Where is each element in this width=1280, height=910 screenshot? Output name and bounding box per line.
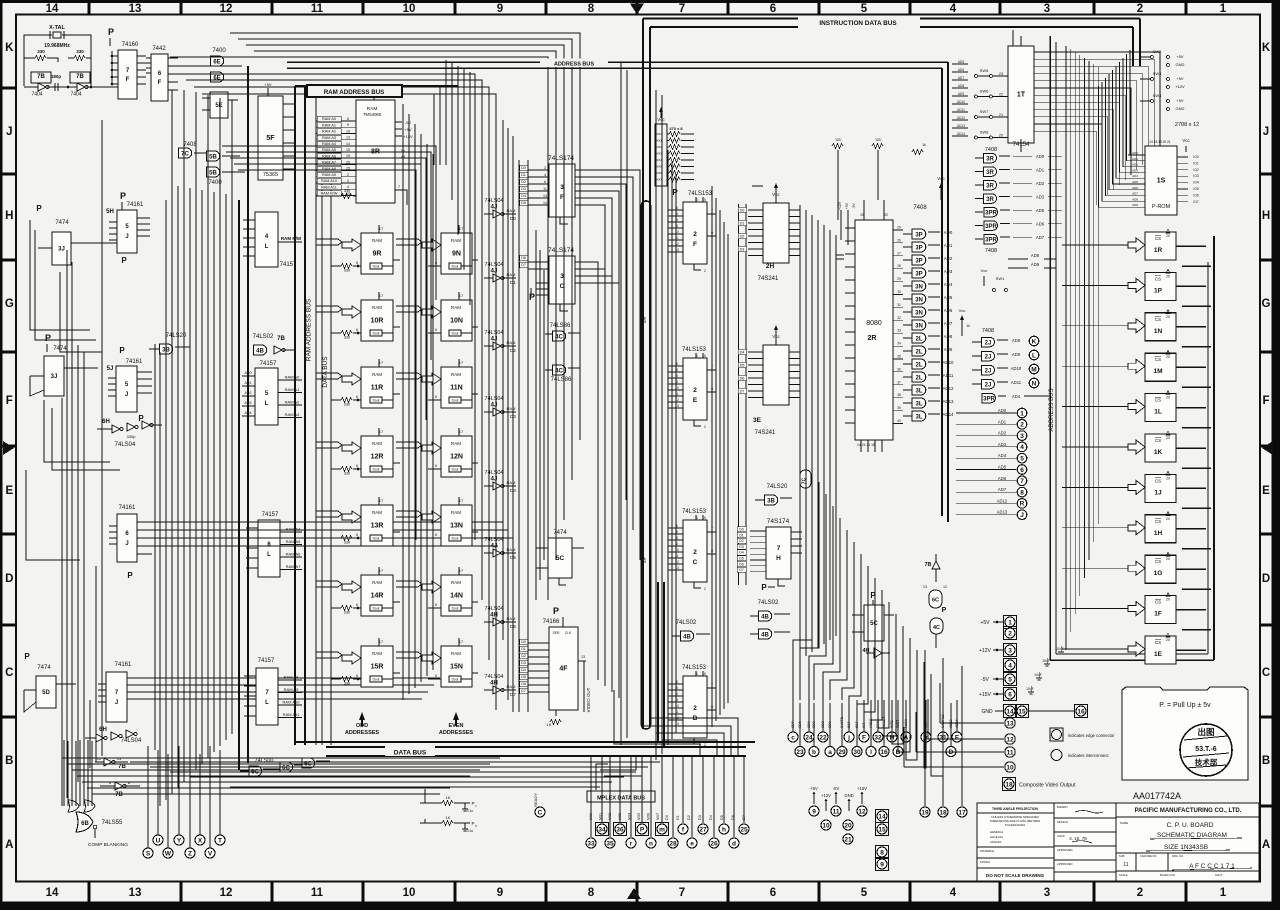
svg-text:D6: D6 bbox=[521, 256, 526, 260]
svg-text:18: 18 bbox=[1005, 781, 1013, 788]
svg-text:3P: 3P bbox=[915, 258, 922, 264]
svg-text:22: 22 bbox=[819, 734, 827, 741]
svg-text:AD7: AD7 bbox=[1036, 235, 1045, 240]
svg-text:4: 4 bbox=[676, 692, 678, 696]
svg-text:AD7: AD7 bbox=[1132, 192, 1138, 196]
mux 74LS153 2C bbox=[668, 509, 716, 591]
gate 6C c bbox=[302, 758, 315, 768]
svg-text:74LS04: 74LS04 bbox=[115, 442, 136, 448]
gate 3R 0 bbox=[984, 153, 997, 163]
connector H bbox=[887, 732, 897, 742]
svg-text:EVEN: EVEN bbox=[449, 723, 464, 729]
svg-text:15: 15 bbox=[346, 148, 350, 152]
svg-text:+5V: +5V bbox=[980, 620, 990, 626]
connector 21 bbox=[843, 834, 853, 844]
svg-text:6C: 6C bbox=[932, 598, 939, 604]
svg-text:16: 16 bbox=[880, 749, 888, 756]
svg-text:U: U bbox=[156, 837, 161, 844]
svg-text:AD13: AD13 bbox=[997, 510, 1008, 515]
svg-text:P: P bbox=[121, 256, 127, 265]
svg-text:RAM A1: RAM A1 bbox=[285, 387, 300, 392]
connector 17 bbox=[957, 807, 967, 817]
resistor pack 470x8 bbox=[655, 107, 694, 186]
svg-text:27: 27 bbox=[897, 251, 901, 255]
wires 5F right pins bbox=[283, 104, 295, 169]
svg-text:AD5: AD5 bbox=[998, 465, 1007, 470]
data channel bar 738 bbox=[739, 204, 747, 585]
svg-text:D6: D6 bbox=[731, 815, 735, 820]
svg-text:l: l bbox=[870, 749, 872, 756]
svg-text:D1: D1 bbox=[521, 173, 526, 177]
connector 29 bbox=[837, 747, 847, 757]
svg-text:AD4: AD4 bbox=[944, 282, 953, 287]
svg-text:RAM A6: RAM A6 bbox=[286, 552, 301, 557]
svg-text:AD1: AD1 bbox=[944, 243, 953, 248]
wire bundle top left nest bbox=[170, 33, 580, 710]
signal connector circles lower row bbox=[795, 703, 956, 757]
svg-text:3: 3 bbox=[676, 380, 678, 384]
svg-text:10: 10 bbox=[346, 129, 350, 133]
svg-text:2: 2 bbox=[347, 173, 349, 177]
inverters 6H row C bbox=[85, 727, 142, 744]
svg-text:Dout: Dout bbox=[373, 468, 380, 472]
svg-text:17: 17 bbox=[459, 226, 464, 231]
register 74S174 7H bbox=[737, 518, 802, 592]
svg-text:74LS20: 74LS20 bbox=[767, 484, 788, 490]
svg-text:13: 13 bbox=[543, 194, 547, 198]
svg-text:12: 12 bbox=[220, 887, 233, 899]
svg-text:330: 330 bbox=[344, 189, 350, 193]
connector N bbox=[1029, 378, 1039, 388]
memory chip 1F bbox=[1062, 593, 1211, 630]
svg-text:INSTRUCTION DATA BUS: INSTRUCTION DATA BUS bbox=[819, 20, 897, 27]
RAM chip 9N bbox=[422, 225, 472, 274]
svg-text:D5: D5 bbox=[739, 557, 744, 561]
wires RAM A0-A3 outputs bbox=[242, 371, 302, 418]
wires 7J pins bbox=[98, 678, 143, 702]
svg-text:SW1: SW1 bbox=[996, 276, 1005, 281]
svg-text:20: 20 bbox=[999, 134, 1003, 138]
svg-text:H: H bbox=[5, 210, 13, 222]
svg-text:D0: D0 bbox=[740, 209, 745, 213]
svg-text:6: 6 bbox=[356, 395, 358, 399]
svg-text:330: 330 bbox=[344, 682, 350, 686]
svg-text:AD8: AD8 bbox=[944, 334, 953, 339]
svg-text:6: 6 bbox=[770, 887, 776, 899]
svg-text:74LS02: 74LS02 bbox=[253, 334, 274, 340]
mux 74LS153 2B bbox=[668, 665, 716, 747]
svg-text:2: 2 bbox=[693, 231, 697, 238]
svg-text:74LS174: 74LS174 bbox=[548, 155, 574, 162]
gate 3P AD1 bbox=[912, 242, 926, 252]
svg-text:D: D bbox=[5, 573, 13, 585]
svg-text:RAM: RAM bbox=[372, 510, 382, 515]
svg-text:J: J bbox=[125, 234, 128, 240]
svg-text:33: 33 bbox=[897, 329, 901, 333]
svg-text:6B: 6B bbox=[81, 821, 89, 827]
legend interconnect bbox=[1051, 750, 1109, 761]
svg-text:RAM A11: RAM A11 bbox=[321, 185, 337, 189]
wire 11R Dout bbox=[370, 397, 382, 403]
gate 6E b bbox=[211, 72, 224, 82]
svg-text:330p: 330p bbox=[127, 434, 137, 439]
svg-text:21: 21 bbox=[999, 113, 1003, 117]
svg-text:14: 14 bbox=[46, 887, 59, 899]
handwritten note box bbox=[1122, 687, 1248, 780]
svg-text:C: C bbox=[5, 667, 13, 679]
svg-text:SW7: SW7 bbox=[980, 109, 989, 114]
svg-text:THIRD ANGLE PROJECTION: THIRD ANGLE PROJECTION bbox=[992, 807, 1039, 811]
svg-text:19: 19 bbox=[921, 809, 929, 816]
column tick marks bottom bbox=[89, 881, 1186, 902]
svg-text:AD14: AD14 bbox=[957, 132, 965, 136]
inverters 74LS04 6H row bbox=[97, 419, 162, 448]
svg-text:35: 35 bbox=[606, 840, 614, 847]
svg-text:AD10: AD10 bbox=[1011, 366, 1022, 371]
RAM chip 14N bbox=[422, 567, 472, 616]
svg-text:BLUED CAN: BLUED CAN bbox=[1160, 873, 1175, 877]
svg-text:D7: D7 bbox=[739, 568, 744, 572]
svg-text:24: 24 bbox=[805, 734, 813, 741]
svg-text:32: 32 bbox=[874, 734, 882, 741]
svg-text:IO3: IO3 bbox=[1193, 174, 1199, 178]
gate 3N AD6 bbox=[912, 307, 926, 317]
gate 3B right bbox=[765, 495, 778, 505]
svg-text:5: 5 bbox=[861, 887, 868, 899]
svg-text:7408: 7408 bbox=[982, 328, 994, 334]
svg-text:RAM A5: RAM A5 bbox=[286, 539, 301, 544]
svg-text:10: 10 bbox=[822, 822, 830, 829]
gate 3R 2 bbox=[984, 180, 997, 190]
svg-text:9: 9 bbox=[812, 808, 816, 815]
svg-text:11: 11 bbox=[833, 808, 840, 815]
svg-text:DATA BUS: DATA BUS bbox=[394, 750, 427, 757]
wire 10N Dout bbox=[449, 330, 461, 336]
wires 3F pins bbox=[528, 166, 588, 227]
svg-text:K: K bbox=[1032, 338, 1037, 345]
mux 74LS153 2E bbox=[668, 347, 716, 429]
address bus vertical lines bbox=[1066, 46, 1098, 650]
svg-text:1N: 1N bbox=[1154, 328, 1163, 335]
svg-text:7474: 7474 bbox=[37, 665, 51, 671]
svg-text:11: 11 bbox=[1007, 749, 1014, 756]
svg-text:17: 17 bbox=[459, 360, 464, 365]
svg-text:39: 39 bbox=[897, 406, 901, 410]
wire bundle bottom long horizontals bbox=[130, 762, 660, 787]
svg-text:D0: D0 bbox=[521, 640, 526, 644]
svg-text:E: E bbox=[955, 734, 960, 741]
wire data input 10R bbox=[341, 331, 352, 336]
svg-text:21: 21 bbox=[844, 836, 852, 843]
svg-text:RAM A0: RAM A0 bbox=[285, 375, 300, 380]
memory chip 1H bbox=[1062, 512, 1211, 549]
svg-text:CS: CS bbox=[1155, 519, 1161, 524]
svg-text:CLK: CLK bbox=[565, 631, 572, 635]
svg-text:Vcc: Vcc bbox=[959, 308, 966, 313]
buffer 74S241 2H bbox=[738, 183, 800, 282]
svg-text:ANGLES: ANGLES bbox=[990, 840, 1001, 844]
svg-text:SW2: SW2 bbox=[1153, 49, 1162, 54]
svg-text:F: F bbox=[126, 77, 130, 83]
wire 8R top bbox=[340, 91, 374, 93]
svg-text:74160: 74160 bbox=[122, 42, 139, 48]
svg-text:L: L bbox=[265, 700, 269, 706]
svg-text:P: P bbox=[640, 826, 645, 833]
svg-text:c: c bbox=[791, 734, 795, 741]
svg-text:RAM: RAM bbox=[372, 651, 382, 656]
wire 15R Dout bbox=[370, 676, 382, 682]
svg-text:3J: 3J bbox=[58, 247, 65, 253]
svg-text:AA017742A: AA017742A bbox=[1133, 791, 1181, 801]
svg-text:CS: CS bbox=[1155, 276, 1161, 281]
gate 2L AD8 bbox=[912, 333, 926, 343]
svg-text:3J: 3J bbox=[51, 374, 58, 380]
svg-text:13: 13 bbox=[923, 585, 927, 589]
svg-text:V: V bbox=[208, 850, 213, 857]
svg-text:2L: 2L bbox=[915, 362, 922, 368]
svg-text:D7: D7 bbox=[521, 689, 526, 693]
connector n bbox=[646, 838, 656, 848]
svg-text:5H: 5H bbox=[106, 209, 114, 215]
gate 3N AD7 bbox=[912, 320, 926, 330]
ready connector C bbox=[533, 793, 545, 817]
connector 10 bbox=[821, 820, 831, 830]
power labels bottom with circles bbox=[809, 786, 867, 844]
svg-text:AD9: AD9 bbox=[1132, 203, 1138, 207]
gate 3PR 0 bbox=[984, 207, 998, 217]
odd addresses label bbox=[345, 712, 380, 736]
svg-text:3N: 3N bbox=[915, 323, 923, 329]
connector 24 bbox=[804, 732, 814, 742]
svg-text:15R: 15R bbox=[371, 664, 384, 671]
data bus label overlay bbox=[385, 747, 435, 756]
svg-text:P: P bbox=[761, 583, 767, 592]
svg-text:330: 330 bbox=[76, 49, 84, 54]
gate 3R 1 bbox=[984, 167, 997, 177]
svg-text:AD3: AD3 bbox=[998, 442, 1007, 447]
svg-text:3R: 3R bbox=[986, 183, 994, 189]
connector c bbox=[788, 732, 798, 742]
inverter 7404 B bbox=[77, 83, 88, 91]
svg-text:P: P bbox=[127, 571, 133, 580]
wire nest right of 3F 3C bbox=[588, 170, 640, 698]
svg-text:H: H bbox=[1262, 210, 1270, 222]
svg-text:74161: 74161 bbox=[126, 359, 143, 365]
svg-text:6H: 6H bbox=[102, 419, 110, 425]
svg-text:74LS153: 74LS153 bbox=[682, 665, 707, 671]
svg-text:10: 10 bbox=[1006, 764, 1014, 771]
svg-text:1M: 1M bbox=[1153, 368, 1162, 375]
wedge feeders from RAM address bus channel bbox=[316, 239, 422, 658]
svg-text:9R: 9R bbox=[373, 251, 382, 258]
svg-text:3P: 3P bbox=[915, 245, 922, 251]
CPU 8080 2R bbox=[845, 200, 903, 452]
connector K bbox=[1029, 336, 1039, 346]
svg-text:4B: 4B bbox=[256, 348, 264, 354]
svg-text:C: C bbox=[693, 559, 698, 566]
svg-text:2: 2 bbox=[704, 587, 706, 591]
svg-text:Dout: Dout bbox=[373, 607, 380, 611]
svg-text:J: J bbox=[6, 126, 12, 138]
svg-text:6H: 6H bbox=[99, 727, 107, 733]
wire bundle left verticals bbox=[62, 90, 232, 806]
boxed connectors 14 15 8 9 bottom bbox=[875, 809, 888, 870]
svg-text:AD13: AD13 bbox=[949, 719, 953, 728]
svg-text:AD4: AD4 bbox=[998, 453, 1007, 458]
svg-text:Composite Video Output: Composite Video Output bbox=[1019, 783, 1076, 789]
svg-text:74161: 74161 bbox=[119, 505, 136, 511]
svg-text:25: 25 bbox=[897, 226, 901, 230]
wire data input 13R bbox=[341, 536, 352, 541]
svg-text:C: C bbox=[1262, 667, 1270, 679]
svg-text:4: 4 bbox=[676, 374, 678, 378]
connector 14 15 GND bbox=[981, 704, 1087, 717]
RAM chip 12N bbox=[422, 428, 472, 477]
svg-text:74161: 74161 bbox=[127, 202, 144, 208]
svg-text:GND: GND bbox=[1176, 106, 1185, 111]
svg-text:5D: 5D bbox=[42, 690, 50, 696]
gate 6C right bbox=[923, 585, 947, 608]
svg-text:L: L bbox=[267, 552, 271, 558]
svg-text:indicates interconnect: indicates interconnect bbox=[1068, 753, 1109, 758]
connector 7 AD6 bbox=[1017, 476, 1027, 486]
svg-text:74S241: 74S241 bbox=[755, 430, 776, 436]
svg-text:COMP BLANKING: COMP BLANKING bbox=[88, 842, 128, 848]
svg-text:4B: 4B bbox=[683, 634, 691, 640]
svg-text:2J: 2J bbox=[985, 368, 992, 374]
svg-text:+5V: +5V bbox=[264, 82, 272, 87]
svg-text:TMS4060: TMS4060 bbox=[363, 112, 382, 117]
wires verticals right of data channel bbox=[536, 230, 544, 600]
svg-text:8: 8 bbox=[588, 3, 595, 15]
svg-text:17: 17 bbox=[379, 429, 384, 434]
wires 5C middle bbox=[536, 547, 548, 549]
svg-text:P: P bbox=[24, 652, 30, 661]
connector R AD12 bbox=[1017, 499, 1027, 509]
svg-text:6: 6 bbox=[356, 328, 358, 332]
svg-text:APPROVED: APPROVED bbox=[1057, 862, 1073, 866]
svg-text:3N: 3N bbox=[915, 297, 923, 303]
title block bbox=[977, 803, 1259, 881]
svg-text:TOLERANCES: TOLERANCES bbox=[1005, 823, 1025, 827]
connector 20 bbox=[843, 820, 853, 830]
wire bundle upper horizontals from 5F bbox=[168, 66, 452, 165]
svg-text:+15V: +15V bbox=[857, 786, 867, 791]
svg-text:CHCK: CHCK bbox=[1057, 834, 1065, 838]
svg-text:7B: 7B bbox=[277, 336, 285, 342]
connector 36 bbox=[613, 822, 626, 835]
connector 13 bbox=[1005, 718, 1015, 728]
connector circles 13 12 11 10 column bbox=[904, 683, 1015, 772]
connector m bbox=[655, 822, 668, 835]
connector S bbox=[143, 848, 153, 858]
svg-text:G: G bbox=[1262, 298, 1271, 310]
svg-text:AD6: AD6 bbox=[1036, 222, 1045, 227]
memory chip 1J bbox=[1062, 471, 1211, 508]
svg-text:H: H bbox=[776, 555, 781, 562]
svg-text:AD7: AD7 bbox=[998, 487, 1007, 492]
svg-text:D0: D0 bbox=[665, 815, 669, 820]
svg-text:AD2: AD2 bbox=[944, 256, 953, 261]
svg-text:AD0: AD0 bbox=[1132, 151, 1138, 155]
memory chip 1N bbox=[1062, 310, 1211, 347]
svg-text:7B: 7B bbox=[115, 792, 123, 798]
RAM chip 9R bbox=[342, 225, 393, 274]
svg-text:23: 23 bbox=[999, 72, 1003, 76]
svg-text:AD9: AD9 bbox=[1031, 262, 1040, 267]
svg-text:0.1u: 0.1u bbox=[467, 829, 474, 833]
svg-text:2: 2 bbox=[704, 425, 706, 429]
outer black border right bbox=[1272, 0, 1280, 910]
svg-text:AD10: AD10 bbox=[943, 360, 955, 365]
svg-text:AD9: AD9 bbox=[1012, 352, 1021, 357]
buffer 4H diode bbox=[862, 648, 890, 658]
svg-text:7: 7 bbox=[1020, 478, 1024, 485]
svg-text:1: 1 bbox=[696, 354, 698, 358]
svg-text:11: 11 bbox=[311, 887, 324, 899]
svg-text:75365: 75365 bbox=[263, 172, 278, 178]
svg-text:RAM A3: RAM A3 bbox=[322, 136, 336, 140]
svg-text:17: 17 bbox=[459, 293, 464, 298]
svg-text:1G: 1G bbox=[1154, 570, 1163, 577]
svg-text:12R: 12R bbox=[371, 454, 384, 461]
svg-text:SW6: SW6 bbox=[980, 89, 989, 94]
gate 6E a bbox=[211, 56, 224, 66]
connector d bbox=[729, 838, 739, 848]
nor 74LS55 6B bbox=[76, 812, 93, 832]
svg-text:DATA BUS: DATA BUS bbox=[322, 356, 329, 388]
switches SW2 SW3 SW4 bbox=[1140, 49, 1185, 111]
svg-text:AD12: AD12 bbox=[943, 386, 955, 391]
svg-text:25: 25 bbox=[740, 826, 748, 833]
svg-text:0.1u: 0.1u bbox=[467, 809, 474, 813]
connector 6 AD5 bbox=[1017, 465, 1027, 475]
svg-text:18: 18 bbox=[939, 809, 947, 816]
svg-text:74LS04: 74LS04 bbox=[485, 470, 504, 476]
gate 4B row G bbox=[254, 345, 267, 355]
row tick marks left bbox=[3, 88, 16, 806]
svg-text:P: P bbox=[529, 292, 535, 302]
svg-text:4B: 4B bbox=[761, 614, 769, 620]
svg-text:1: 1 bbox=[696, 672, 698, 676]
svg-text:74LS02: 74LS02 bbox=[676, 620, 697, 626]
svg-text:10N: 10N bbox=[450, 318, 463, 325]
svg-text:6: 6 bbox=[356, 674, 358, 678]
svg-text:M: M bbox=[1031, 366, 1036, 373]
connector a bbox=[825, 747, 835, 757]
svg-text:AD11: AD11 bbox=[943, 373, 954, 378]
svg-text:+5V: +5V bbox=[845, 202, 849, 209]
RAM chip 12R bbox=[342, 428, 393, 477]
gate 4C lower bbox=[553, 365, 566, 375]
svg-text:1T: 1T bbox=[1017, 92, 1026, 99]
svg-text:D5: D5 bbox=[720, 815, 724, 820]
svg-text:L: L bbox=[265, 401, 269, 407]
svg-text:D4: D4 bbox=[521, 194, 526, 198]
svg-text:F: F bbox=[1262, 395, 1269, 407]
gate 3L AD13 bbox=[912, 398, 926, 408]
fold mark arrow top bbox=[630, 4, 644, 15]
svg-text:Dout: Dout bbox=[452, 678, 459, 682]
svg-text:20: 20 bbox=[844, 822, 852, 829]
svg-text:5E: 5E bbox=[215, 103, 222, 109]
svg-text:D7: D7 bbox=[740, 390, 745, 394]
connector B bbox=[893, 747, 903, 757]
svg-text:2J: 2J bbox=[985, 382, 992, 388]
svg-text:+12V: +12V bbox=[821, 793, 831, 798]
svg-text:470 x 8: 470 x 8 bbox=[669, 126, 683, 131]
connector k bbox=[921, 732, 931, 742]
